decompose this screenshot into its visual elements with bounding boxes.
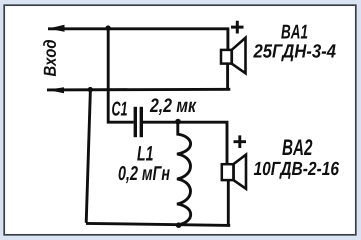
wire: bottom input run [47,88,230,91]
node A junction dot [105,25,110,30]
label BA2 [282,139,312,155]
node C junction dot (C1/L1/BA2 top) [175,119,181,125]
loudspeaker BA1 horn [232,38,246,74]
node D junction dot (L1 bottom) [176,222,182,228]
loudspeaker BA2 horn [234,155,246,189]
capacitor C1 right plate [140,107,143,137]
BA1 plus polarity [231,21,244,34]
inductor L1 coil [177,121,191,224]
label L1 [137,146,153,160]
label L1 value 0,2 мГн [119,166,170,183]
loudspeaker BA1 driver square [221,50,232,64]
wire: node A vertical down to C1 [108,28,133,122]
capacitor C1 left plate [134,107,137,137]
node B junction dot [88,87,93,92]
label C1 [112,102,127,116]
BA2 plus polarity [234,135,247,148]
label Вход [43,40,56,76]
wire: BA1 bottom terminal [226,64,229,90]
wire: bottom run [86,223,230,225]
wire: left branch down [86,90,90,223]
label C1 value 2,2 мк [150,98,197,115]
input terminal arrow 1 [48,25,65,32]
wire: top input to BA1 top terminal [48,29,228,51]
loudspeaker BA2 driver square [222,164,234,180]
label BA2 type 10ГДВ-2-16 [254,162,339,179]
label BA1 [281,25,307,39]
wire: C1 to BA2 top terminal [143,122,227,164]
wire: BA2 bottom terminal [227,180,230,225]
label BA1 type 25ГДН-3-4 [253,44,336,61]
input terminal arrow 2 [47,87,64,93]
